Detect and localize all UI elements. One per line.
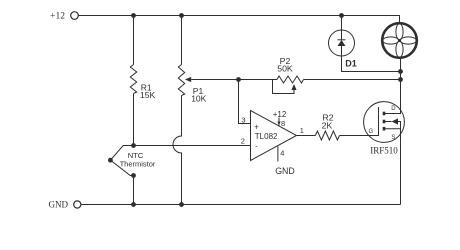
wire fan bottom to drain rail [400, 58, 402, 107]
wire P1 wiper to P2 [191, 79, 277, 81]
node junction P2/drain [398, 77, 403, 82]
wire R1 top lead [133, 16, 135, 65]
svg-text:15K: 15K [140, 90, 155, 100]
svg-text:10K: 10K [191, 94, 206, 104]
terminal +12 [50, 12, 78, 22]
wire GND rail [81, 204, 401, 206]
op-amp U1 TL082 [251, 111, 297, 161]
node junction thermistor top [131, 143, 136, 148]
wire op-amp output pin 1 [297, 126, 316, 136]
svg-text:2: 2 [241, 136, 245, 145]
svg-text:50K: 50K [277, 63, 293, 73]
svg-text:S: S [391, 135, 395, 141]
node junction top D1 [339, 13, 344, 18]
svg-text:3: 3 [241, 116, 245, 125]
potentiometer P1 [178, 65, 206, 104]
svg-text:D: D [391, 106, 396, 112]
terminal GND [49, 200, 81, 210]
transistor Q1 IRF510 [364, 102, 405, 156]
node junction thermistor bottom [131, 173, 136, 178]
svg-text:G: G [368, 129, 373, 135]
wire op-amp pin 4 stub [275, 146, 295, 176]
node junction top R1 [131, 13, 136, 18]
node junction GND P1 [179, 202, 184, 207]
diode D1 [329, 30, 357, 68]
wire R1 bottom lead [133, 94, 135, 146]
node junction top P1 [179, 13, 184, 18]
resistor R2 [315, 112, 339, 140]
wire top rail [79, 16, 400, 24]
wire source to GND rail [400, 142, 402, 204]
svg-text:+12: +12 [273, 110, 287, 119]
svg-text:GND: GND [275, 166, 295, 176]
node junction D1/drain [398, 69, 403, 74]
wire R2 to gate [340, 135, 367, 137]
wire op-amp pin 8 +12 stub [273, 110, 287, 128]
wire thermistor to GND rail [133, 176, 135, 205]
wire P1 lower lead with hop over pin2 wire [173, 96, 182, 205]
svg-text:4: 4 [280, 149, 284, 158]
wire P1 top lead [181, 16, 183, 65]
svg-text:-: - [255, 141, 258, 150]
svg-text:IRF510: IRF510 [370, 145, 398, 155]
svg-text:TL082: TL082 [255, 132, 278, 141]
wire D1 bottom to drain rail [342, 56, 401, 72]
node junction wiper/pin3 [236, 77, 241, 82]
resistor R1 [130, 65, 155, 100]
wire D1 top lead [341, 16, 343, 31]
potentiometer P2 [273, 56, 304, 94]
svg-text:2K: 2K [322, 121, 333, 131]
wire P2 right to drain rail [304, 79, 401, 81]
svg-text:+: + [254, 123, 259, 132]
node junction GND thermistor [131, 202, 136, 207]
wire op-amp pin 2 [134, 145, 251, 147]
svg-text:+12: +12 [50, 12, 65, 22]
svg-text:8: 8 [281, 119, 285, 128]
thermistor RT1 NTC [108, 146, 156, 176]
svg-text:GND: GND [49, 200, 69, 210]
svg-text:Thermistor: Thermistor [120, 160, 156, 169]
svg-text:D1: D1 [345, 58, 357, 68]
fan M1 [382, 23, 417, 58]
svg-text:NTC: NTC [128, 151, 144, 160]
wire to op-amp pin 3 [239, 80, 251, 124]
svg-text:1: 1 [300, 126, 304, 135]
